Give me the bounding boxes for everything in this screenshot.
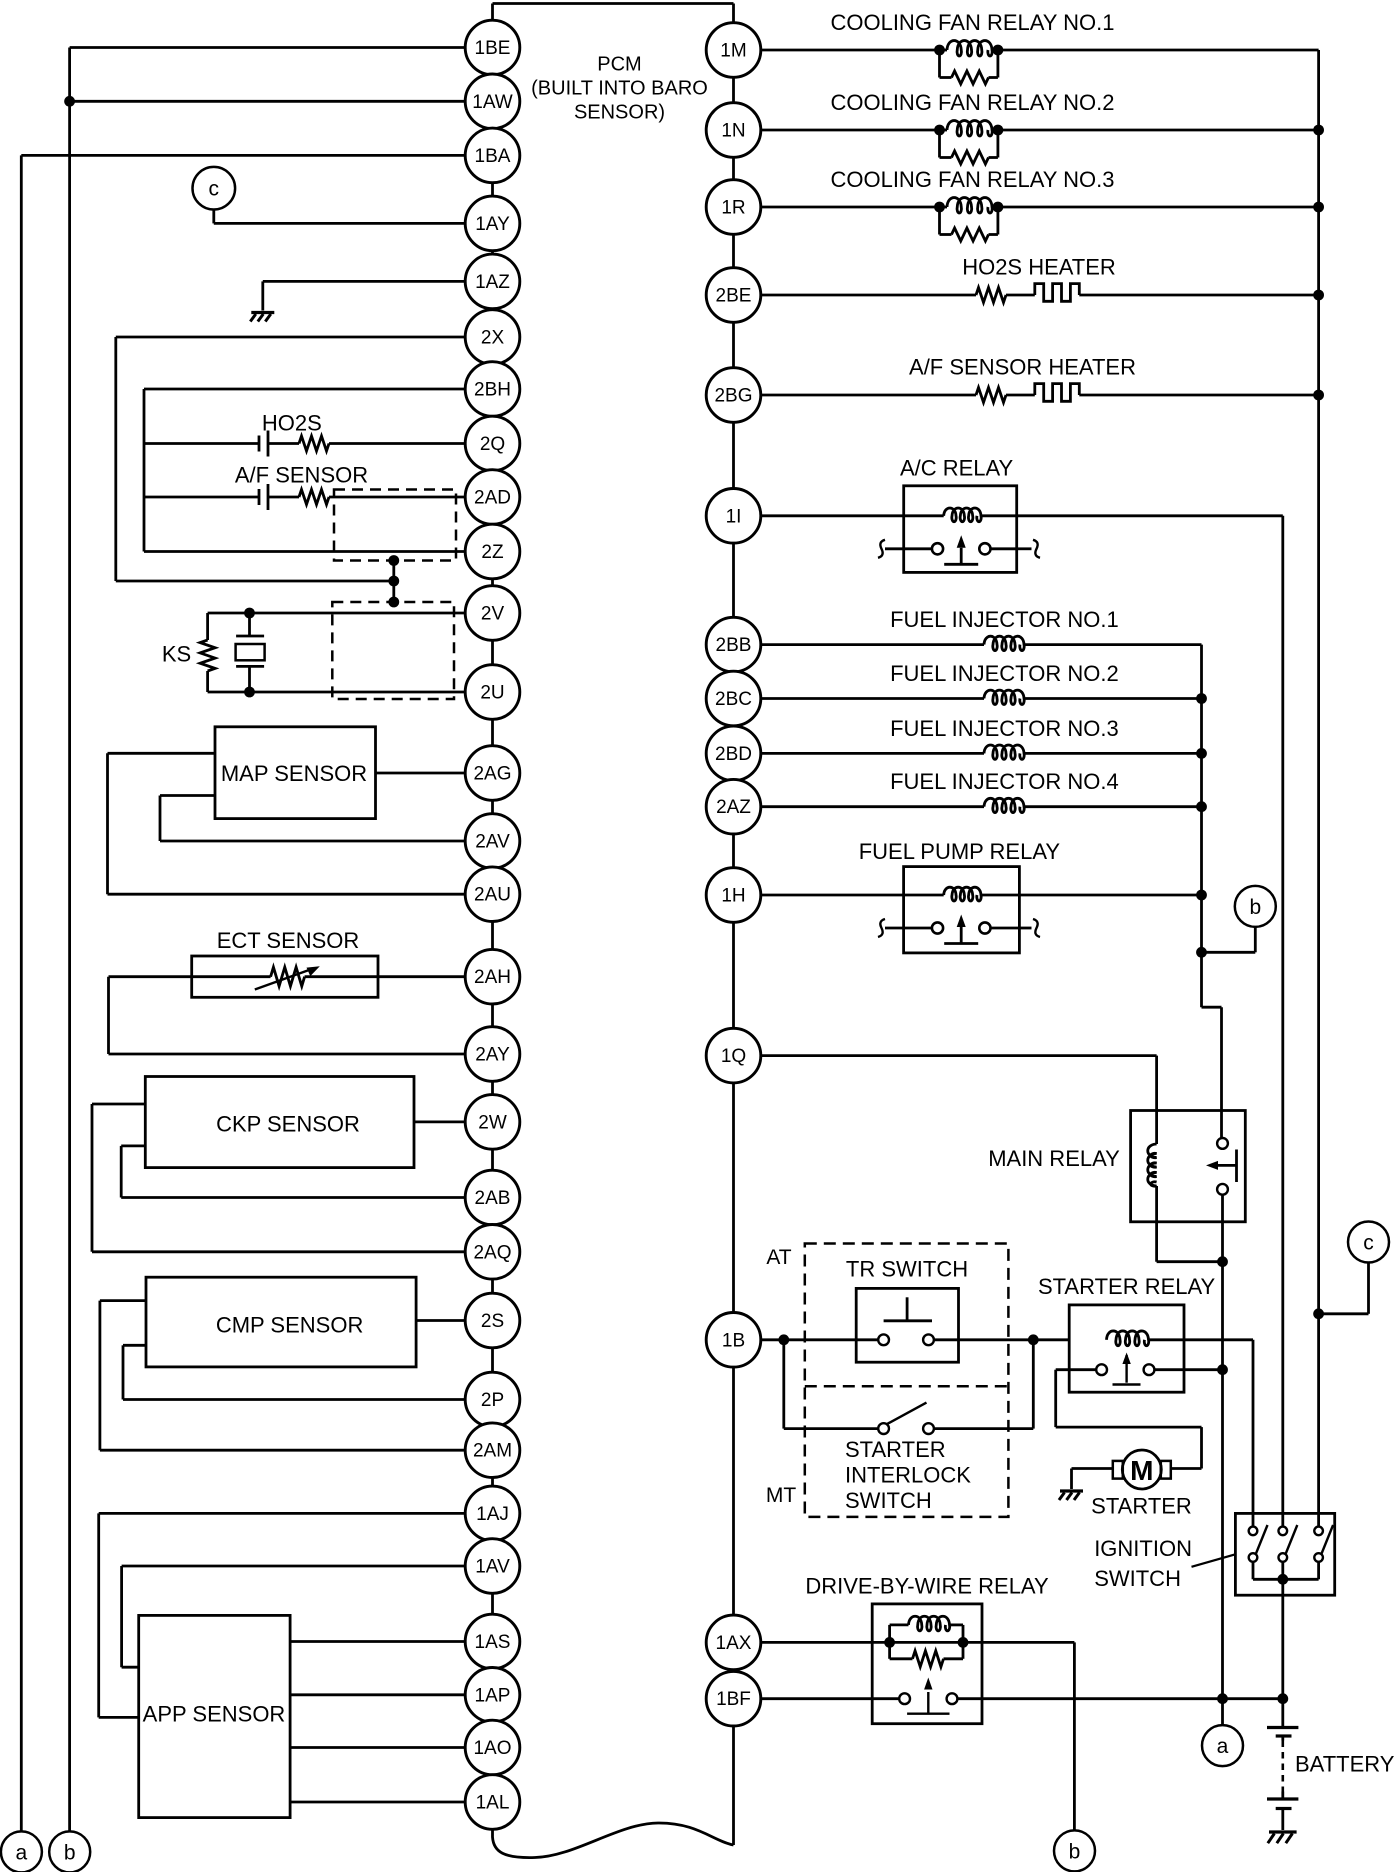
svg-text:a: a xyxy=(1217,1735,1229,1758)
svg-text:2BB: 2BB xyxy=(716,635,752,656)
svg-text:FUEL INJECTOR NO.4: FUEL INJECTOR NO.4 xyxy=(890,769,1119,794)
svg-text:2Q: 2Q xyxy=(480,434,505,455)
svg-text:a: a xyxy=(16,1841,28,1864)
svg-text:SENSOR): SENSOR) xyxy=(574,101,665,123)
svg-text:A/F SENSOR: A/F SENSOR xyxy=(235,463,368,488)
svg-text:2AZ: 2AZ xyxy=(716,797,751,818)
svg-text:APP SENSOR: APP SENSOR xyxy=(143,1702,286,1727)
svg-text:2U: 2U xyxy=(480,683,504,704)
svg-text:STARTER: STARTER xyxy=(1091,1493,1192,1518)
svg-text:2BH: 2BH xyxy=(474,380,511,401)
svg-text:TR SWITCH: TR SWITCH xyxy=(846,1256,968,1281)
svg-text:DRIVE-BY-WIRE RELAY: DRIVE-BY-WIRE RELAY xyxy=(805,1573,1049,1598)
svg-text:1AV: 1AV xyxy=(475,1557,510,1578)
svg-text:1AZ: 1AZ xyxy=(475,272,510,293)
svg-text:SWITCH: SWITCH xyxy=(845,1488,932,1513)
svg-text:2AM: 2AM xyxy=(473,1441,512,1462)
svg-text:b: b xyxy=(1069,1840,1081,1863)
svg-text:INTERLOCK: INTERLOCK xyxy=(845,1463,971,1488)
svg-text:c: c xyxy=(209,178,220,201)
svg-text:2X: 2X xyxy=(481,328,505,349)
svg-text:PCM: PCM xyxy=(597,54,641,76)
svg-text:1AX: 1AX xyxy=(716,1633,752,1654)
svg-text:FUEL INJECTOR NO.2: FUEL INJECTOR NO.2 xyxy=(890,661,1119,686)
svg-text:2V: 2V xyxy=(481,604,505,625)
svg-text:1BE: 1BE xyxy=(475,38,511,59)
svg-text:HO2S HEATER: HO2S HEATER xyxy=(962,255,1116,280)
svg-text:2AB: 2AB xyxy=(475,1188,511,1209)
svg-text:1AP: 1AP xyxy=(475,1685,511,1706)
svg-text:2BC: 2BC xyxy=(715,689,752,710)
svg-text:A/F SENSOR HEATER: A/F SENSOR HEATER xyxy=(909,355,1136,380)
svg-text:MAIN RELAY: MAIN RELAY xyxy=(988,1146,1120,1171)
svg-text:b: b xyxy=(1249,896,1261,919)
svg-text:1BF: 1BF xyxy=(716,1689,751,1710)
svg-text:BATTERY: BATTERY xyxy=(1295,1752,1395,1777)
svg-text:FUEL INJECTOR NO.3: FUEL INJECTOR NO.3 xyxy=(890,716,1119,741)
svg-text:1AY: 1AY xyxy=(475,214,510,235)
svg-text:KS: KS xyxy=(162,642,191,667)
svg-text:b: b xyxy=(64,1841,76,1864)
svg-text:2S: 2S xyxy=(481,1311,504,1332)
svg-text:(BUILT INTO BARO: (BUILT INTO BARO xyxy=(531,78,708,100)
svg-text:1AJ: 1AJ xyxy=(476,1504,509,1525)
svg-text:FUEL PUMP RELAY: FUEL PUMP RELAY xyxy=(859,839,1061,864)
svg-text:2P: 2P xyxy=(481,1390,504,1411)
svg-text:2W: 2W xyxy=(478,1112,507,1133)
svg-text:A/C RELAY: A/C RELAY xyxy=(900,455,1014,480)
svg-text:1AL: 1AL xyxy=(476,1793,510,1814)
svg-text:MT: MT xyxy=(766,1484,796,1507)
svg-text:1R: 1R xyxy=(721,198,745,219)
svg-text:1Q: 1Q xyxy=(721,1046,746,1067)
svg-text:M: M xyxy=(1130,1455,1153,1486)
svg-text:1AO: 1AO xyxy=(473,1738,511,1759)
svg-text:1B: 1B xyxy=(722,1330,745,1351)
svg-text:1N: 1N xyxy=(721,121,745,142)
svg-text:2AV: 2AV xyxy=(475,832,510,853)
svg-text:1AW: 1AW xyxy=(472,92,513,113)
svg-text:2BG: 2BG xyxy=(714,386,752,407)
svg-text:1H: 1H xyxy=(721,886,745,907)
svg-text:CKP SENSOR: CKP SENSOR xyxy=(216,1112,360,1137)
svg-text:SWITCH: SWITCH xyxy=(1094,1566,1181,1591)
svg-text:1AS: 1AS xyxy=(475,1632,511,1653)
svg-text:2AD: 2AD xyxy=(474,488,511,509)
svg-text:c: c xyxy=(1363,1232,1374,1255)
svg-text:STARTER RELAY: STARTER RELAY xyxy=(1038,1274,1216,1299)
svg-text:1I: 1I xyxy=(726,506,742,527)
svg-text:COOLING FAN RELAY NO.1: COOLING FAN RELAY NO.1 xyxy=(830,10,1114,35)
svg-text:2BD: 2BD xyxy=(715,744,752,765)
svg-text:2AG: 2AG xyxy=(473,764,511,785)
svg-text:2AY: 2AY xyxy=(475,1045,510,1066)
svg-text:2AH: 2AH xyxy=(474,967,511,988)
svg-text:HO2S: HO2S xyxy=(262,411,322,436)
svg-text:STARTER: STARTER xyxy=(845,1437,946,1462)
svg-text:2AQ: 2AQ xyxy=(473,1242,511,1263)
svg-text:COOLING FAN RELAY NO.3: COOLING FAN RELAY NO.3 xyxy=(830,167,1114,192)
svg-text:CMP SENSOR: CMP SENSOR xyxy=(216,1313,364,1338)
svg-text:2BE: 2BE xyxy=(716,286,752,307)
svg-text:2Z: 2Z xyxy=(481,542,504,563)
svg-text:COOLING FAN RELAY NO.2: COOLING FAN RELAY NO.2 xyxy=(830,90,1114,115)
svg-text:1BA: 1BA xyxy=(475,146,511,167)
svg-text:2AU: 2AU xyxy=(474,885,511,906)
svg-text:1M: 1M xyxy=(720,41,746,62)
svg-text:IGNITION: IGNITION xyxy=(1094,1536,1192,1561)
svg-text:AT: AT xyxy=(766,1246,791,1269)
svg-text:ECT SENSOR: ECT SENSOR xyxy=(217,928,360,953)
svg-text:MAP SENSOR: MAP SENSOR xyxy=(221,761,367,786)
svg-text:FUEL INJECTOR NO.1: FUEL INJECTOR NO.1 xyxy=(890,607,1119,632)
